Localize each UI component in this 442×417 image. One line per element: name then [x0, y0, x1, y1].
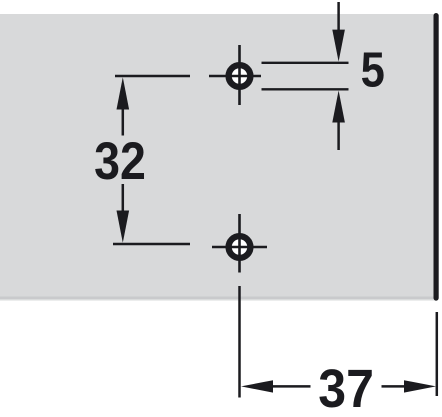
panel front edge (thick line) [434, 16, 439, 298]
svg-text:5: 5 [361, 42, 385, 97]
dim 37: left extension line [238, 286, 241, 398]
drill hole bottom: ring [229, 236, 251, 258]
dim 5: lower reference line [262, 88, 349, 90]
drill hole bottom: crosshair horizontal [212, 246, 267, 249]
svg-text:32: 32 [94, 131, 146, 191]
dim 37: right arrowhead [404, 380, 436, 392]
dim 5: up arrowhead [332, 91, 345, 123]
drill hole bottom: crosshair vertical [238, 214, 241, 273]
dim 32: lower tail [122, 184, 125, 211]
drill hole top: ring [229, 65, 251, 87]
dim 37: right dim line [382, 385, 406, 388]
dim 32: upper tail [122, 108, 125, 136]
dim 5: down arrowhead [332, 30, 345, 62]
drill hole bottom: white bore [226, 233, 254, 261]
dim 32: bottom extension line [113, 243, 190, 245]
dim 5: upper reference line [262, 62, 349, 64]
dim 32: top extension line [115, 75, 190, 77]
svg-text:37: 37 [318, 359, 374, 417]
panel face (grey wood board) [0, 14, 437, 300]
panel bottom edge shading [0, 297, 437, 300]
dim 37: left arrowhead [241, 380, 273, 392]
dim 37: right extension line [436, 312, 439, 396]
drill hole top: crosshair vertical [238, 45, 241, 105]
dim 37: left dim line [272, 385, 311, 388]
dim 32: up arrowhead [117, 77, 130, 109]
drill hole top: crosshair horizontal [209, 75, 261, 78]
dim 5: upper tail [337, 2, 340, 31]
dim 32: down arrowhead [117, 211, 130, 243]
dim 5: lower tail [337, 121, 340, 150]
drill hole top: white bore [226, 62, 254, 90]
